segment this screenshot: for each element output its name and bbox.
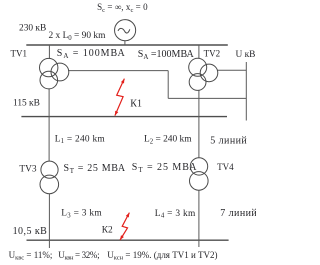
svg-text:10,5 кВ: 10,5 кВ xyxy=(13,226,48,237)
svg-text:TV4: TV4 xyxy=(217,162,234,172)
svg-text:К1: К1 xyxy=(130,98,142,109)
svg-text:7 линий: 7 линий xyxy=(220,208,256,219)
svg-text:115 кВ: 115 кВ xyxy=(13,99,40,109)
svg-text:TV1: TV1 xyxy=(11,49,28,59)
svg-text:TV2: TV2 xyxy=(204,49,221,59)
svg-text:5 линий: 5 линий xyxy=(210,136,247,147)
svg-text:2 x L0 = 90 km: 2 x L0 = 90 km xyxy=(49,31,107,42)
svg-text:230 кВ: 230 кВ xyxy=(19,24,46,34)
svg-text:TV3: TV3 xyxy=(19,165,36,175)
svg-text:U кВ: U кВ xyxy=(236,50,256,60)
svg-text:К2: К2 xyxy=(102,226,113,236)
